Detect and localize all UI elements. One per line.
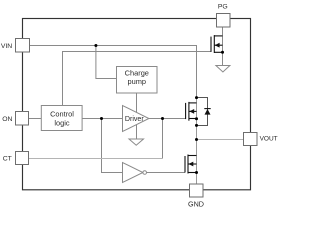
wire driver output to upper FET gate bbox=[149, 118, 186, 120]
driver ground symbol bbox=[129, 139, 144, 145]
driver output node dot bbox=[161, 117, 164, 120]
control logic block bbox=[41, 106, 82, 131]
node dot PG FET source bbox=[221, 51, 224, 54]
pin VIN square bbox=[16, 39, 30, 53]
pin ON square bbox=[16, 112, 29, 126]
driver buffer U1 bbox=[123, 106, 149, 132]
lower FET body arrow bbox=[188, 162, 193, 167]
wire charge pump to driver bbox=[136, 93, 138, 112]
node B junction dot bbox=[100, 117, 103, 120]
svg-text:Control: Control bbox=[50, 110, 74, 119]
inverter U2 bbox=[123, 163, 143, 183]
upper FET body arrow bbox=[189, 109, 194, 114]
wire control logic to PG FET gate bbox=[63, 52, 212, 106]
svg-text:VOUT: VOUT bbox=[260, 135, 278, 142]
pin VOUT square bbox=[244, 133, 258, 146]
wire VIN to node A bbox=[30, 45, 96, 47]
svg-text:ON: ON bbox=[2, 116, 12, 123]
node dot upper FET source bbox=[195, 117, 198, 120]
svg-text:GND: GND bbox=[188, 199, 204, 208]
pin CT square bbox=[16, 152, 29, 165]
pin GND square bbox=[190, 184, 204, 197]
wire ON pin to control logic bbox=[29, 118, 42, 120]
PG FET Q3 bbox=[211, 35, 223, 53]
svg-text:VIN: VIN bbox=[1, 43, 12, 50]
svg-text:PG: PG bbox=[218, 4, 228, 11]
svg-text:CT: CT bbox=[3, 156, 12, 163]
lower pass FET Q2 bbox=[185, 155, 197, 174]
wire node A down to charge pump input bbox=[96, 46, 116, 79]
svg-text:logic: logic bbox=[54, 119, 70, 128]
wire inverter output to lower FET gate bbox=[147, 172, 186, 174]
node dot VOUT branch bbox=[195, 138, 198, 141]
upper pass FET Q1 bbox=[186, 102, 197, 121]
charge pump block bbox=[117, 67, 158, 94]
wire driver output node down to CT line bbox=[162, 119, 164, 159]
svg-text:Driver: Driver bbox=[125, 115, 145, 123]
wire CT pin line bbox=[29, 158, 163, 160]
wire main output vertical rail bbox=[196, 98, 198, 184]
PG ground symbol bbox=[216, 66, 230, 73]
node A junction dot bbox=[94, 44, 97, 47]
pin PG square bbox=[217, 14, 231, 28]
driver ground stub bbox=[136, 125, 138, 139]
svg-text:pump: pump bbox=[128, 77, 147, 86]
inverter bubble bbox=[143, 171, 147, 175]
node dot lower FET source bbox=[195, 171, 198, 174]
node dot diode top bbox=[195, 96, 198, 99]
body diode D1 bbox=[204, 109, 210, 115]
wire VOUT branch bbox=[197, 139, 244, 141]
PG FET body arrow bbox=[215, 43, 220, 48]
wire node B down to inverter input bbox=[102, 119, 123, 173]
wire control logic to driver input bbox=[82, 118, 123, 120]
wire PG pin to PG FET drain bbox=[222, 27, 224, 66]
IC boundary box bbox=[23, 19, 251, 190]
wire node A to top of pass FET vertical bbox=[96, 46, 197, 99]
node dot diode bottom bbox=[195, 124, 198, 127]
wire body diode branch bbox=[197, 98, 208, 126]
